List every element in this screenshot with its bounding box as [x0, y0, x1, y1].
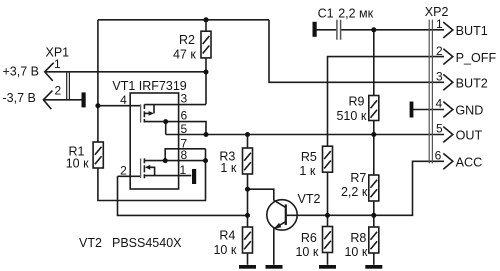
svg-text:VT1 IRF7319: VT1 IRF7319	[112, 79, 186, 93]
svg-text:OUT: OUT	[456, 129, 483, 143]
connector XP2 pin2 arrow	[443, 49, 453, 65]
ground under VT2 emitter	[266, 265, 283, 269]
svg-text:2: 2	[120, 163, 127, 177]
wire R4 bottom lead	[247, 253, 249, 265]
svg-text:PBSS4540X: PBSS4540X	[112, 236, 182, 250]
svg-text:R7: R7	[350, 171, 366, 185]
node R5 / R6 / base	[325, 213, 330, 218]
connector XP2 pin3 arrow	[443, 74, 453, 90]
svg-text:BUT1: BUT1	[456, 24, 488, 38]
wire R2 top lead	[205, 20, 207, 31]
wire XP2 pin4 GND lead	[413, 109, 444, 111]
resistor R9	[369, 96, 379, 121]
svg-text:6: 6	[181, 109, 188, 123]
node gate rail / pin4	[95, 103, 100, 108]
wire VT1 pin2 route to R4 top	[118, 176, 248, 215]
node junction dots	[95, 17, 376, 218]
wire R9 top lead	[373, 30, 375, 96]
node R3 top / OUT	[245, 132, 250, 137]
wire R8 bottom lead	[373, 253, 375, 265]
svg-text:R2: R2	[179, 33, 195, 47]
connector XP2 pin4 arrow	[443, 102, 453, 118]
svg-text:+3,7 В: +3,7 В	[3, 65, 40, 79]
svg-text:5: 5	[436, 122, 443, 136]
connector XP2 pin1 arrow	[443, 22, 453, 38]
wire top bus (R2 top / gate net)	[98, 19, 269, 21]
chassis bar at C1 left	[313, 22, 317, 37]
ground under R6	[319, 265, 336, 269]
wire R1 bottom route to pins 7/8	[98, 149, 206, 201]
wire +3,7 V from XP1 pin1 to R2 column	[45, 71, 206, 73]
connector XP2 pin5 arrow	[443, 127, 453, 143]
wire R3 top lead	[247, 135, 249, 149]
svg-text:2: 2	[55, 84, 62, 98]
chassis bar at XP1 pin2	[82, 92, 86, 107]
resistor R8	[369, 227, 379, 253]
svg-text:R5: R5	[301, 150, 317, 164]
transistor VT1 top p-MOSFET	[141, 104, 206, 134]
node R9 / R7 / OUT	[371, 132, 376, 137]
ground under R8	[365, 265, 382, 269]
svg-text:6: 6	[435, 149, 442, 163]
node R7 / R8 / base	[371, 213, 376, 218]
resistor R2	[201, 31, 211, 58]
svg-text:1 к: 1 к	[299, 164, 315, 178]
connector XP2 body double lines	[429, 20, 432, 164]
node pin6 / OUT	[204, 132, 209, 137]
resistor R5	[323, 146, 333, 172]
node R4 top / pin2 gate	[245, 213, 250, 218]
node +3,7V / R2 bottom	[204, 70, 209, 75]
svg-text:R8: R8	[350, 231, 366, 245]
wire R5 bottom lead	[327, 172, 329, 215]
wire VT2 base line to ACC route	[286, 161, 444, 215]
svg-text:1: 1	[54, 57, 61, 71]
wire VT1 pin2 gate lead	[118, 175, 141, 177]
wire R3 bottom to R4 top	[247, 174, 249, 227]
resistor R4	[243, 227, 253, 253]
svg-text:3: 3	[436, 70, 443, 84]
wire VT2 collector route	[248, 189, 274, 200]
svg-text:4: 4	[120, 93, 127, 107]
wire R6 top lead	[327, 215, 329, 226]
resistor R7	[369, 175, 379, 201]
wire R2 bottom lead down to VT1 pin3	[205, 58, 207, 104]
svg-text:VT2: VT2	[79, 236, 102, 250]
wire VT1 pin4 gate lead	[98, 105, 141, 107]
connector XP1 pin 1 arrow	[45, 63, 54, 81]
wire VT2 emitter lead	[273, 228, 275, 264]
connector XP1 body double lines	[67, 71, 70, 99]
svg-text:1 к: 1 к	[220, 161, 236, 175]
svg-text:10 к: 10 к	[213, 243, 236, 257]
svg-text:10 к: 10 к	[295, 245, 318, 259]
wire OUT to R7 top lead	[373, 135, 375, 176]
svg-text:8: 8	[181, 148, 188, 162]
svg-text:VT2: VT2	[298, 192, 321, 206]
svg-text:10 к: 10 к	[344, 245, 367, 259]
resistor R1	[93, 142, 103, 168]
svg-text:1: 1	[436, 17, 443, 31]
wire OUT line (VT1 pin5 to XP2 pin5)	[166, 134, 444, 136]
node top bus / R2	[204, 17, 209, 22]
chassis bar at VT1 pin1	[192, 169, 196, 184]
svg-text:10 к: 10 к	[66, 157, 89, 171]
connector XP2 pin6 arrow	[443, 153, 453, 169]
svg-text:ACC: ACC	[456, 156, 483, 170]
wire R8 top lead	[373, 215, 375, 227]
ground under R4	[239, 265, 256, 269]
wire R7 bottom lead	[373, 201, 375, 215]
node in-box drain top mosfet	[163, 119, 168, 124]
svg-text:510 к: 510 к	[336, 109, 366, 123]
svg-text:2,2 к: 2,2 к	[341, 185, 368, 199]
svg-text:R6: R6	[301, 231, 317, 245]
svg-text:47 к: 47 к	[173, 47, 196, 61]
connector XP1 pin 2 arrow	[43, 91, 52, 110]
node pin8 / R1 rail	[203, 158, 208, 163]
wire C1 right lead to XP2 pin1 BUT1	[341, 29, 444, 31]
wire BUT2 route from top bus	[269, 20, 444, 83]
svg-text:5: 5	[181, 122, 188, 136]
svg-text:2: 2	[436, 44, 443, 58]
wire C1 left lead from chassis	[317, 29, 337, 31]
resistor R3	[243, 148, 253, 174]
svg-text:GND: GND	[455, 104, 483, 118]
node R3 bottom / collector	[245, 187, 250, 192]
transistor VT2 PBSS4540X	[267, 200, 297, 230]
op-amp U: none; VT1 package box	[130, 93, 178, 189]
svg-text:R9: R9	[349, 95, 365, 109]
wire P_OFF line and R5 top lead	[328, 57, 445, 147]
node in-box drain bottom mosfet	[163, 158, 168, 163]
svg-text:P_OFF: P_OFF	[456, 51, 497, 65]
svg-text:4: 4	[436, 97, 443, 111]
capacitor C1 plates	[337, 20, 341, 40]
node C1 / R9 / BUT1	[371, 27, 376, 32]
svg-text:BUT2: BUT2	[456, 77, 488, 91]
svg-text:3: 3	[181, 91, 188, 105]
chassis bar at XP2 pin4 GND	[410, 102, 414, 118]
wire R9 bottom lead to OUT	[373, 121, 375, 135]
wire R6 bottom lead	[327, 253, 329, 265]
transistor VT1 bottom n-MOSFET	[141, 149, 206, 178]
wire left rail x=97.9 from top bus to R1	[97, 20, 99, 143]
svg-text:1: 1	[180, 163, 187, 177]
wire XP1 pin2 to chassis	[43, 99, 81, 101]
svg-text:R4: R4	[219, 229, 235, 243]
svg-text:C1: C1	[318, 6, 334, 20]
svg-text:2,2 мк: 2,2 мк	[338, 6, 373, 20]
resistor R6	[323, 227, 333, 253]
svg-text:-3,7 В: -3,7 В	[3, 91, 36, 105]
